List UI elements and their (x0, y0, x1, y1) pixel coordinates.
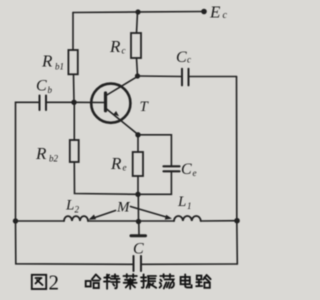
svg-text:C: C (133, 241, 144, 258)
svg-text:R: R (109, 37, 121, 56)
svg-text:c: c (223, 10, 228, 21)
svg-text:e: e (193, 168, 197, 178)
svg-text:2: 2 (75, 205, 80, 215)
label Ec (209, 3, 228, 22)
wire Rc top (137, 12, 138, 33)
label Rb1 (41, 52, 64, 72)
wire Rb2 top (73, 102, 75, 140)
label C (133, 241, 144, 258)
wire Rb2 bottom (74, 162, 138, 194)
svg-text:2: 2 (49, 271, 60, 295)
wire top rail (73, 12, 203, 13)
svg-text:R: R (41, 52, 53, 71)
label Rb2 (35, 144, 59, 164)
wire Ce top branch (138, 135, 171, 166)
resistor Rc (131, 33, 141, 58)
resistor Re (133, 152, 143, 176)
node emitter (135, 132, 140, 137)
label L2 (65, 198, 80, 215)
resistor Rb1 (68, 50, 77, 74)
wire tank rail middle (88, 220, 174, 222)
svg-text:b1: b1 (55, 62, 64, 72)
node right rail L1 (234, 218, 240, 224)
arrow M to L2 (89, 211, 116, 220)
svg-text:1: 1 (187, 201, 192, 211)
transistor T (91, 77, 138, 135)
svg-text:b: b (48, 85, 53, 95)
char dian (electric) (181, 274, 192, 287)
wire Cb to base (46, 101, 74, 103)
wire collector to Cc (138, 75, 183, 78)
wire Rc bottom (137, 58, 138, 76)
svg-text:T: T (140, 99, 150, 115)
wire Ce bottom branch (138, 171, 171, 194)
wire Rb1 top (72, 13, 74, 51)
wire tank rail right (201, 220, 237, 222)
label Re (110, 154, 127, 173)
node tank left (13, 218, 18, 223)
wire Cb left (16, 102, 40, 221)
wire Cc to right rail (189, 76, 237, 78)
node top junction (135, 9, 140, 14)
wire bottom rail left (16, 221, 134, 264)
wire bottom rail right (141, 263, 237, 265)
node base (71, 100, 76, 105)
inductor L2 (64, 216, 88, 221)
arrow M to L1 (131, 207, 173, 220)
node collector (135, 73, 140, 78)
capacitor Cc (182, 69, 189, 86)
capacitor C (134, 256, 142, 271)
svg-text:c: c (122, 46, 126, 56)
wire Rb1 bottom (73, 74, 76, 102)
wire right vertical (236, 77, 239, 265)
node tank center (136, 219, 141, 224)
svg-text:c: c (187, 55, 191, 65)
char lai (124, 274, 137, 289)
svg-text:E: E (209, 3, 221, 22)
label M (116, 200, 131, 216)
char tu (figure) (32, 275, 46, 289)
svg-text:R: R (35, 144, 47, 163)
wire Re bottom (137, 176, 139, 194)
char lu (road) (196, 275, 210, 288)
node emitter bottom (135, 192, 140, 197)
label Rc (109, 37, 126, 56)
char te (special) (104, 274, 120, 288)
svg-text:C: C (36, 78, 47, 95)
wire tank rail left (16, 220, 65, 222)
terminal Ec (201, 9, 207, 15)
wire base lead (74, 101, 104, 103)
capacitor Cb (40, 96, 47, 111)
wire emitter to Re (137, 135, 139, 152)
svg-text:M: M (116, 200, 131, 216)
label Cc (176, 49, 191, 66)
svg-text:L: L (65, 198, 74, 214)
wire center tap (137, 194, 139, 221)
char zhen (oscillate) (141, 274, 156, 287)
label Cb (36, 78, 53, 96)
capacitor Ce (164, 166, 180, 171)
ground tap bar (131, 222, 146, 236)
label T (140, 99, 150, 115)
svg-text:C: C (181, 161, 192, 178)
label L1 (177, 194, 192, 211)
svg-text:b2: b2 (49, 154, 59, 164)
svg-text:e: e (123, 163, 127, 173)
svg-text:R: R (110, 154, 122, 173)
char ha (86, 275, 101, 289)
resistor Rb2 (70, 140, 79, 162)
svg-text:C: C (176, 49, 187, 66)
char dang (swing) (160, 274, 174, 288)
svg-text:L: L (177, 194, 186, 210)
inductor L1 (174, 216, 201, 221)
label Ce (181, 161, 197, 178)
caption figure 2 Hartley oscillator (32, 271, 211, 295)
